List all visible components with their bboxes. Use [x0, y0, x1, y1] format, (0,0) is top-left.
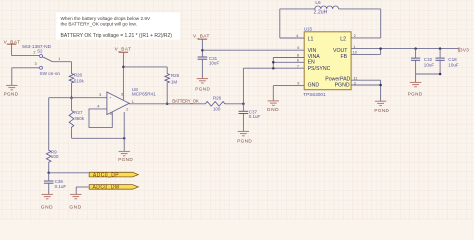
svg-text:PGND: PGND	[195, 86, 210, 91]
svg-text:PS/SYNC: PS/SYNC	[308, 66, 331, 72]
svg-text:2: 2	[126, 107, 128, 111]
svg-text:ADC0_DP: ADC0_DP	[93, 172, 119, 178]
svg-text:PGND: PGND	[335, 82, 350, 88]
svg-text:1: 1	[132, 100, 134, 104]
svg-text:PGND: PGND	[118, 157, 133, 162]
svg-text:VOUT: VOUT	[333, 48, 348, 54]
svg-text:TPS63001: TPS63001	[303, 92, 326, 98]
svg-text:S2: S2	[37, 49, 43, 54]
svg-text:L1: L1	[308, 37, 314, 43]
svg-text:360k: 360k	[74, 116, 85, 121]
svg-text:5: 5	[110, 112, 112, 116]
svg-text:R27: R27	[74, 110, 83, 115]
svg-text:C31: C31	[209, 56, 218, 61]
svg-text:PowerPAD: PowerPAD	[325, 76, 350, 82]
svg-text:BATTERY_OK: BATTERY_OK	[172, 99, 199, 104]
svg-text:FB: FB	[341, 54, 348, 60]
svg-text:4: 4	[97, 105, 99, 109]
svg-text:2: 2	[354, 34, 356, 38]
svg-text:3V3: 3V3	[460, 47, 469, 52]
svg-text:1M: 1M	[171, 79, 178, 84]
svg-text:+: +	[109, 96, 111, 100]
svg-text:L6: L6	[315, 0, 321, 6]
svg-text:510k: 510k	[74, 78, 85, 83]
svg-text:GND: GND	[308, 82, 320, 88]
svg-text:3: 3	[34, 62, 36, 66]
svg-text:6: 6	[297, 59, 299, 63]
svg-text:R26: R26	[213, 96, 222, 101]
svg-text:10uF: 10uF	[424, 62, 435, 67]
svg-text:R20: R20	[74, 72, 83, 77]
svg-text:0.1uF: 0.1uF	[55, 184, 67, 189]
svg-text:10uF: 10uF	[209, 61, 220, 66]
svg-text:V_BAT: V_BAT	[193, 33, 210, 38]
svg-text:PGND: PGND	[374, 108, 389, 113]
svg-text:9: 9	[297, 82, 299, 86]
svg-text:3: 3	[99, 93, 101, 97]
svg-text:C36: C36	[55, 179, 64, 184]
svg-text:When the battery voltage drops: When the battery voltage drops below 2.9…	[61, 16, 152, 21]
svg-text:100: 100	[51, 154, 59, 159]
svg-text:0.1uF: 0.1uF	[249, 114, 261, 119]
svg-text:R9: R9	[51, 150, 57, 155]
svg-text:U15: U15	[304, 27, 313, 32]
svg-text:PGND: PGND	[237, 138, 252, 143]
svg-text:GND: GND	[267, 107, 279, 113]
svg-text:GND: GND	[41, 205, 53, 211]
svg-text:R25: R25	[171, 73, 180, 78]
svg-text:2: 2	[33, 51, 35, 55]
svg-text:PGND: PGND	[4, 92, 19, 97]
svg-text:100: 100	[213, 107, 221, 112]
svg-text:6: 6	[121, 92, 123, 96]
svg-text:2.2uH: 2.2uH	[314, 9, 328, 15]
svg-text:PGND: PGND	[408, 91, 423, 96]
svg-text:5: 5	[297, 46, 299, 50]
svg-text:C32: C32	[424, 57, 433, 62]
svg-text:C37: C37	[249, 109, 258, 114]
svg-text:10uF: 10uF	[448, 62, 459, 67]
svg-text:VIN: VIN	[308, 48, 317, 54]
svg-text:7: 7	[297, 64, 299, 68]
svg-text:8: 8	[297, 54, 299, 58]
svg-text:MCP65R41: MCP65R41	[132, 92, 156, 97]
svg-text:EN: EN	[308, 59, 315, 65]
svg-text:SW on-on: SW on-on	[40, 71, 61, 76]
svg-text:C18: C18	[448, 57, 457, 62]
svg-text:V_BAT: V_BAT	[115, 47, 132, 52]
svg-text:ADC0_DM: ADC0_DM	[93, 185, 120, 191]
svg-text:BATTERY OK Trip voltage = 1.21: BATTERY OK Trip voltage = 1.21 * ((R1 + …	[61, 33, 173, 39]
svg-text:L2: L2	[340, 37, 346, 43]
svg-text:1: 1	[58, 57, 60, 61]
svg-text:U8: U8	[132, 87, 138, 92]
svg-text:the BATTERY_OK output will go: the BATTERY_OK output will go low.	[61, 22, 137, 27]
svg-text:GND: GND	[69, 205, 81, 211]
